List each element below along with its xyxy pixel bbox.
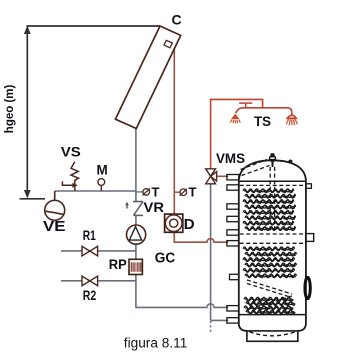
tank left stub 4 (227, 216, 239, 221)
safety valve VS (62, 162, 78, 191)
wire blue dotted drain below (210, 321, 212, 333)
svg-text:C: C (172, 12, 182, 28)
dimension ground tick (20, 198, 46, 200)
tank middle coil (243, 247, 297, 278)
tank left stub 2 (227, 185, 239, 190)
wire hot collector riser (173, 48, 175, 214)
svg-text:VS: VS (61, 145, 81, 160)
wire blue cold to tank bottom stub (211, 319, 229, 321)
tank right stub square (306, 234, 314, 242)
pump GC (127, 225, 146, 244)
svg-text:RP: RP (109, 256, 127, 272)
wire hot VMS to tank stub (217, 175, 229, 177)
tank manhole (305, 277, 310, 298)
svg-text:D: D (184, 216, 195, 233)
expansion vessel VE (45, 191, 65, 220)
tank air vent (269, 153, 276, 167)
svg-text:GC: GC (155, 251, 176, 267)
wire blue bottom run to tank with bridge (136, 304, 228, 308)
sensor T2 (180, 189, 187, 196)
svg-text:T: T (189, 184, 197, 199)
tank upper coil (243, 189, 296, 230)
tank bottom coil (244, 297, 295, 313)
tank left stub 5 (227, 230, 239, 235)
filter RP (129, 259, 142, 274)
collector sensor pocket (164, 40, 172, 48)
TS left shower head (231, 114, 240, 120)
sensor T1 stub (136, 191, 143, 193)
sensor T2 stub (174, 191, 180, 193)
wire hot VMS riser to TS (210, 99, 212, 169)
flow meter D (165, 214, 183, 232)
svg-text:VMS: VMS (216, 151, 245, 166)
valve R2 (82, 276, 98, 286)
check valve VR (132, 202, 140, 214)
tank left stub 8 (227, 306, 239, 311)
tank right stub upper (306, 184, 312, 189)
svg-text:VE: VE (43, 218, 66, 235)
wire hot D to tank with bridge (174, 232, 228, 242)
svg-text:figura 8.11: figura 8.11 (124, 335, 188, 350)
tank left stub 6 (227, 241, 239, 246)
tank left stub 3 (227, 204, 239, 209)
svg-text:TS: TS (254, 113, 271, 129)
tank shell (239, 160, 306, 341)
dimension line top horizontal (27, 25, 160, 27)
gauge M (98, 179, 105, 191)
tank left stub 9 (227, 318, 239, 323)
wire blue R1 branch (61, 250, 136, 252)
wire blue R2 branch (61, 280, 136, 282)
svg-text:VR: VR (144, 199, 165, 215)
wire blue collector downpipe (135, 126, 137, 308)
tank internal dashed pipes (240, 160, 306, 310)
wire blue cold riser VMS (210, 184, 212, 321)
mixing valve VMS (206, 169, 217, 184)
TS right shower head (287, 115, 296, 118)
wire blue horizontal VE line (55, 190, 136, 192)
sensor T1 (143, 189, 150, 196)
tank left stub 1 (227, 175, 239, 180)
TS tap water loop (211, 99, 298, 125)
svg-text:R1: R1 (83, 227, 96, 243)
collector C panel (115, 26, 180, 129)
dimension line hgeo vertical (24, 26, 31, 199)
valve R1 (82, 246, 98, 256)
svg-text:R2: R2 (83, 287, 97, 303)
svg-text:hgeo (m): hgeo (m) (4, 85, 16, 134)
TS tap symbol (245, 103, 247, 107)
svg-text:M: M (97, 163, 108, 178)
svg-text:T: T (152, 184, 160, 199)
tank left stub 7 (230, 274, 239, 279)
tank dome fitting dot (288, 160, 292, 164)
